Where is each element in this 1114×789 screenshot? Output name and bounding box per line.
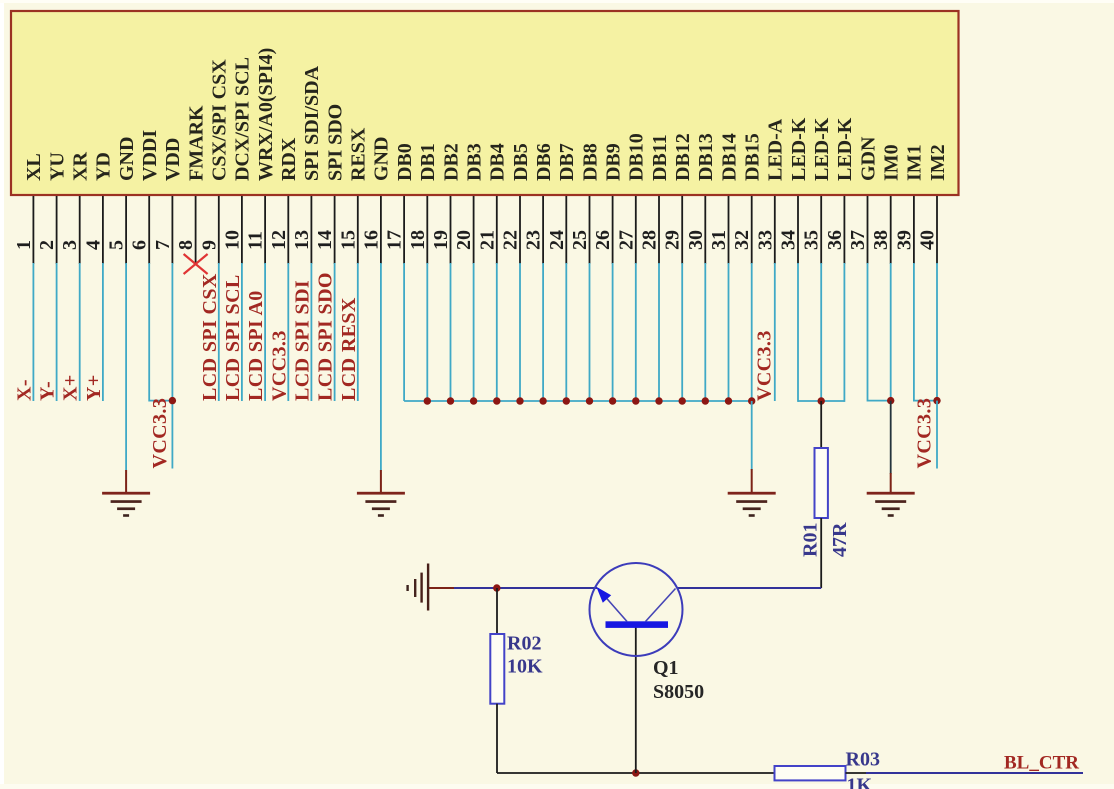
svg-text:VDD: VDD — [162, 138, 184, 181]
pin 2 (YU) — [36, 152, 68, 264]
wire net Y- (pin 2) — [37, 263, 59, 401]
svg-text:1: 1 — [13, 240, 35, 250]
pin 22 (DB5) — [500, 143, 532, 264]
svg-text:YU: YU — [46, 152, 68, 181]
ground (pins 37-38) — [867, 492, 915, 517]
pin 36 (LED-K) — [824, 117, 856, 264]
svg-text:DB13: DB13 — [695, 133, 717, 181]
svg-text:47R: 47R — [829, 522, 851, 557]
svg-text:DB9: DB9 — [602, 143, 624, 181]
pin 18 (DB1) — [407, 143, 439, 264]
transistor Q1 collector diagonal — [646, 589, 676, 622]
junction node DB bus at pin 22 — [516, 397, 523, 404]
wire net LCD SPI SDI (pin 13) — [291, 263, 313, 401]
svg-text:DB6: DB6 — [533, 143, 555, 181]
pin 39 (IM1) — [893, 144, 925, 264]
svg-text:VCC3.3: VCC3.3 — [753, 330, 775, 401]
wire net LCD RESX (pin 15) — [338, 263, 360, 401]
pin 15 (RESX) — [337, 127, 369, 264]
svg-text:LCD RESX: LCD RESX — [338, 297, 360, 401]
junction node DB bus at pin 24 — [563, 397, 570, 404]
svg-text:10K: 10K — [507, 656, 543, 678]
wire net VCC3.3 (pin 12) — [268, 263, 290, 401]
svg-text:R01: R01 — [800, 523, 822, 557]
svg-text:27: 27 — [615, 230, 637, 250]
svg-text:SPI SDO: SPI SDO — [324, 104, 346, 181]
pin 40 (IM2) — [917, 144, 949, 264]
pin 8 (FMARK) — [175, 105, 207, 264]
wire pin 20 DB3 — [473, 263, 475, 401]
pin 9 (CSX/SPI CSX) — [198, 59, 230, 264]
svg-text:22: 22 — [500, 230, 522, 250]
wire data bus DB0-DB15 horizontal — [404, 400, 752, 402]
wire R02 top lead — [496, 588, 498, 634]
svg-text:LCD SPI SCL: LCD SPI SCL — [222, 274, 244, 401]
svg-text:VDDI: VDDI — [139, 130, 161, 181]
svg-text:IM2: IM2 — [927, 144, 949, 181]
svg-text:DB10: DB10 — [626, 133, 648, 181]
pin 16 (GND) — [360, 137, 392, 264]
svg-text:X+: X+ — [60, 374, 82, 401]
pin 3 (XR) — [59, 152, 91, 264]
wire emitter run — [454, 587, 597, 589]
junction node DB bus at pin 30 — [702, 397, 709, 404]
pin 17 (DB0) — [384, 143, 416, 264]
svg-text:28: 28 — [639, 230, 661, 250]
pin 1 (XL) — [13, 153, 45, 264]
svg-text:DB8: DB8 — [579, 143, 601, 181]
wire pin 27 DB10 — [635, 263, 637, 401]
svg-text:23: 23 — [523, 230, 545, 250]
svg-text:36: 36 — [824, 230, 846, 250]
svg-text:7: 7 — [152, 240, 174, 250]
svg-text:34: 34 — [778, 230, 800, 250]
wire pin 19 DB2 — [450, 263, 452, 401]
svg-text:30: 30 — [685, 230, 707, 250]
wire pins 37-38 GDN/IM0 join — [868, 263, 891, 402]
svg-text:DB12: DB12 — [672, 133, 694, 181]
pin 34 (LED-K) — [778, 117, 810, 264]
wire net BL_CTR — [866, 772, 1083, 774]
svg-text:VCC3.3: VCC3.3 — [914, 398, 936, 469]
pin 38 (IM0) — [870, 144, 902, 264]
svg-text:15: 15 — [337, 230, 359, 250]
svg-text:25: 25 — [569, 230, 591, 250]
svg-text:4: 4 — [82, 240, 104, 250]
svg-text:S8050: S8050 — [653, 681, 704, 703]
transistor Q1 emitter arrow — [596, 587, 611, 603]
svg-text:17: 17 — [384, 230, 406, 250]
svg-text:DB2: DB2 — [440, 143, 462, 181]
svg-text:BL_CTR: BL_CTR — [1004, 753, 1079, 774]
svg-text:DB11: DB11 — [649, 134, 671, 181]
pin 25 (DB8) — [569, 143, 601, 264]
svg-text:2: 2 — [36, 240, 58, 250]
junction node DB bus at pin 19 — [447, 397, 454, 404]
junction node DB bus at pin 18 — [424, 397, 431, 404]
transistor Q1 body circle — [590, 563, 683, 656]
svg-text:LED-K: LED-K — [811, 117, 833, 181]
wire VCC3.3 stub (pin 40) — [936, 401, 938, 469]
junction node LED-K at pin 35 — [818, 397, 825, 404]
pin 29 (DB12) — [662, 133, 694, 264]
wire pin 32 DB15 — [751, 263, 753, 401]
junction node base/R03 — [632, 769, 639, 776]
svg-text:26: 26 — [592, 230, 614, 250]
pin 13 (SPI SDI/SDA) — [291, 65, 323, 264]
svg-text:DB15: DB15 — [742, 133, 764, 181]
wire base vertical — [635, 628, 637, 774]
junction node DB bus at pin 28 — [655, 397, 662, 404]
svg-text:5: 5 — [106, 240, 128, 250]
junction node DB bus at pin 27 — [632, 397, 639, 404]
svg-text:IM0: IM0 — [881, 144, 903, 181]
svg-text:CSX/SPI CSX: CSX/SPI CSX — [209, 59, 231, 181]
svg-text:DB4: DB4 — [487, 143, 509, 181]
svg-text:Q1: Q1 — [653, 657, 679, 679]
junction node DB bus at pin 31 — [725, 397, 732, 404]
svg-text:GND: GND — [371, 137, 393, 181]
svg-text:R03: R03 — [846, 749, 880, 771]
svg-text:19: 19 — [430, 230, 452, 250]
pin 14 (SPI SDO) — [314, 104, 346, 264]
no-connect marker X (pin 8 FMARK) — [184, 254, 208, 274]
svg-text:LED-A: LED-A — [765, 118, 787, 181]
svg-text:18: 18 — [407, 230, 429, 250]
svg-text:DB5: DB5 — [510, 143, 532, 181]
pin 26 (DB9) — [592, 143, 624, 264]
svg-text:11: 11 — [245, 231, 267, 250]
svg-text:3: 3 — [59, 240, 81, 250]
junction node emitter/R02 — [493, 584, 500, 591]
svg-text:YD: YD — [93, 152, 115, 181]
svg-text:31: 31 — [708, 230, 730, 250]
junction node DB bus at pin 32 — [748, 397, 755, 404]
svg-text:32: 32 — [731, 230, 753, 250]
svg-text:14: 14 — [314, 230, 336, 250]
pin 28 (DB11) — [639, 134, 671, 264]
wire net LCD SPI A0 (pin 11) — [245, 263, 267, 401]
pin 6 (VDDI) — [129, 130, 161, 264]
wire pins 34-36 LED-K join — [798, 263, 844, 402]
svg-text:WRX/A0(SPI4): WRX/A0(SPI4) — [255, 48, 277, 181]
wire pin 17 DB0 — [403, 263, 405, 401]
svg-text:LCD SPI SDO: LCD SPI SDO — [315, 272, 337, 401]
svg-text:8: 8 — [175, 240, 197, 250]
junction node DB bus at pin 23 — [539, 397, 546, 404]
svg-text:10: 10 — [221, 230, 243, 250]
pin 23 (DB6) — [523, 143, 555, 264]
wire pin 5 GND to ground — [125, 263, 127, 493]
wire net LCD SPI CSX (pin 9) — [199, 263, 221, 401]
wire R01 to collector — [677, 518, 822, 588]
svg-text:35: 35 — [801, 230, 823, 250]
pin 35 (LED-K) — [801, 117, 833, 264]
svg-text:9: 9 — [198, 240, 220, 250]
svg-text:LCD SPI A0: LCD SPI A0 — [245, 290, 267, 401]
junction node at pin 40 — [933, 397, 940, 404]
pin 32 (DB15) — [731, 133, 763, 264]
svg-text:39: 39 — [893, 230, 915, 250]
svg-text:FMARK: FMARK — [185, 105, 207, 181]
svg-text:GND: GND — [116, 137, 138, 181]
svg-text:12: 12 — [268, 230, 290, 250]
svg-text:Y+: Y+ — [83, 374, 105, 401]
wire pin 21 DB4 — [496, 263, 498, 401]
pin 19 (DB2) — [430, 143, 462, 264]
junction node DB bus at pin 29 — [679, 397, 686, 404]
wire pin 31 DB14 — [728, 263, 730, 401]
wire pin 28 DB11 — [658, 263, 660, 401]
svg-text:X-: X- — [13, 379, 35, 401]
svg-text:LED-K: LED-K — [788, 117, 810, 181]
ground (emitter, sideways) — [406, 564, 429, 611]
svg-text:DB14: DB14 — [718, 133, 740, 181]
svg-text:LED-K: LED-K — [834, 117, 856, 181]
svg-text:29: 29 — [662, 230, 684, 250]
svg-text:1K: 1K — [847, 775, 873, 789]
wire R02 bottom lead — [496, 704, 498, 773]
wire pin 29 DB12 — [681, 263, 683, 401]
wire pin 23 DB6 — [542, 263, 544, 401]
svg-text:DB1: DB1 — [417, 143, 439, 181]
wire pin 30 DB13 — [704, 263, 706, 401]
pin 37 (GDN) — [847, 136, 879, 264]
wire pin 26 DB9 — [612, 263, 614, 401]
svg-text:VCC3.3: VCC3.3 — [268, 330, 290, 401]
wire net X+ (pin 3) — [60, 263, 82, 401]
svg-text:IM1: IM1 — [904, 144, 926, 181]
svg-text:DB3: DB3 — [463, 143, 485, 181]
svg-text:Y-: Y- — [37, 381, 59, 401]
svg-text:40: 40 — [917, 230, 939, 250]
svg-text:DB7: DB7 — [556, 143, 578, 181]
junction node pin6/7 VCC3.3 — [169, 397, 176, 404]
pin 5 (GND) — [106, 137, 138, 264]
transistor Q1 emitter diagonal — [598, 589, 627, 622]
pin 11 (WRX/A0(SPI4)) — [245, 48, 277, 264]
wire pins 39-40 IM1/IM2 join — [914, 263, 937, 402]
svg-text:24: 24 — [546, 230, 568, 250]
wire base bottom run — [497, 772, 775, 774]
connector P1 40-pin LCD module body — [11, 11, 959, 195]
wire DB bus stub to ground (pin 32) — [751, 401, 753, 493]
wire pin 22 DB5 — [519, 263, 521, 401]
svg-text:XL: XL — [23, 153, 45, 181]
junction node DB bus at pin 26 — [609, 397, 616, 404]
wire pin 24 DB7 — [565, 263, 567, 401]
wire net X- (pin 1) — [13, 263, 35, 401]
wire R03 output lead — [846, 772, 868, 774]
wire net VCC3.3 (pin 33 LED-A) — [753, 263, 775, 401]
resistor R03 body — [775, 766, 846, 780]
pin 30 (DB13) — [685, 133, 717, 264]
svg-text:16: 16 — [360, 230, 382, 250]
pin 27 (DB10) — [615, 133, 647, 264]
resistor R02 body — [490, 634, 504, 704]
svg-text:SPI SDI/SDA: SPI SDI/SDA — [301, 65, 323, 181]
svg-text:37: 37 — [847, 230, 869, 250]
wire pin 25 DB8 — [589, 263, 591, 401]
pin 10 (DCX/SPI SCL) — [221, 57, 253, 264]
pin 4 (YD) — [82, 152, 114, 264]
svg-text:LCD SPI CSX: LCD SPI CSX — [199, 273, 221, 401]
wire pin 38 to ground — [890, 401, 892, 493]
wire pin 16 GND to ground — [380, 263, 382, 493]
pin 33 (LED-A) — [754, 118, 786, 264]
svg-text:13: 13 — [291, 230, 313, 250]
svg-text:XR: XR — [70, 152, 92, 181]
wire net LCD SPI SDO (pin 14) — [315, 263, 337, 401]
svg-text:20: 20 — [453, 230, 475, 250]
pin 24 (DB7) — [546, 143, 578, 264]
svg-text:LCD SPI SDI: LCD SPI SDI — [291, 280, 313, 401]
pin 31 (DB14) — [708, 133, 740, 264]
wire emitter ground lead — [429, 587, 455, 589]
wire net Y+ (pin 4) — [83, 263, 105, 401]
pin 7 (VDD) — [152, 138, 184, 264]
ground (pin 16 GND) — [357, 492, 405, 517]
wire pin 7 VDD / VCC3.3 stub — [171, 263, 173, 469]
junction node DB bus at pin 20 — [470, 397, 477, 404]
junction node DB bus at pin 21 — [493, 397, 500, 404]
svg-text:RDX: RDX — [278, 137, 300, 181]
resistor R01 body — [815, 448, 828, 518]
junction node DB bus at pin 25 — [586, 397, 593, 404]
ground (pin 5 GND) — [102, 492, 150, 517]
svg-text:RESX: RESX — [348, 127, 370, 181]
svg-text:VCC3.3: VCC3.3 — [149, 398, 171, 469]
pin 21 (DB4) — [476, 143, 508, 264]
wire LED-K to R01 — [820, 401, 822, 448]
svg-text:38: 38 — [870, 230, 892, 250]
svg-text:DB0: DB0 — [394, 143, 416, 181]
wire pin 6 VDDI — [149, 263, 172, 402]
ground (DB bus) — [728, 492, 776, 517]
pin 20 (DB3) — [453, 143, 485, 264]
pin 12 (RDX) — [268, 137, 300, 264]
svg-text:33: 33 — [754, 230, 776, 250]
svg-text:6: 6 — [129, 240, 151, 250]
junction node at pin 38 — [887, 397, 894, 404]
svg-text:21: 21 — [476, 230, 498, 250]
wire net LCD SPI SCL (pin 10) — [222, 263, 244, 401]
wire pin 18 DB1 — [426, 263, 428, 401]
svg-text:DCX/SPI SCL: DCX/SPI SCL — [232, 57, 254, 181]
transistor Q1 base bar — [606, 621, 669, 628]
svg-text:GDN: GDN — [857, 136, 879, 181]
svg-text:R02: R02 — [507, 633, 541, 655]
